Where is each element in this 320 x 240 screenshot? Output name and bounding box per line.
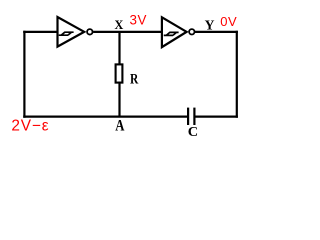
wire left vertical — [23, 31, 25, 118]
svg-text:Y: Y — [205, 18, 215, 33]
svg-text:C: C — [188, 124, 198, 139]
wire right vertical — [236, 31, 238, 118]
Schmitt inverter U1 — [58, 17, 93, 47]
wire output Y (inverter 2 to right corner) — [195, 31, 238, 33]
svg-text:3V: 3V — [130, 13, 148, 28]
svg-text:X: X — [115, 17, 124, 32]
svg-text:2V−ε: 2V−ε — [11, 117, 49, 134]
wire node X to resistor — [118, 32, 120, 66]
capacitor C1 plates — [188, 108, 194, 125]
svg-text:0V: 0V — [220, 14, 237, 29]
wire bottom left (corner to node A) — [23, 115, 119, 117]
resistor R1 body — [116, 64, 123, 82]
wire resistor to node A — [118, 82, 120, 117]
wire node A to capacitor — [120, 115, 188, 117]
wire node X (inverter 1 output to inverter 2 input) — [93, 31, 163, 33]
wire capacitor to right corner — [196, 115, 238, 117]
wire input (left horizontal to inverter 1) — [23, 31, 58, 33]
svg-text:R: R — [130, 72, 138, 88]
Schmitt inverter U2 — [162, 17, 195, 47]
svg-text:A: A — [115, 118, 125, 135]
